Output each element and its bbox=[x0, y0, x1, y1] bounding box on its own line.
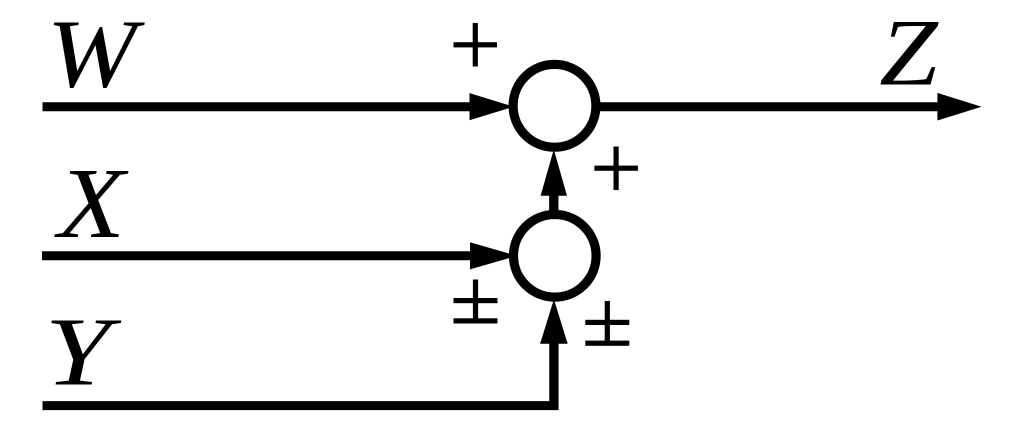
plus-minus sign at S2 Y input bbox=[585, 301, 629, 346]
plus sign at S1 lower input bbox=[594, 147, 638, 191]
wire Z output bbox=[599, 102, 939, 111]
wire X input bbox=[42, 251, 471, 260]
summing junction S2 bbox=[514, 215, 597, 298]
arrowhead into summer S2 bbox=[470, 242, 517, 269]
arrowhead Y into S2 bbox=[540, 299, 568, 343]
svg-text:Y: Y bbox=[45, 299, 122, 406]
svg-text:W: W bbox=[47, 0, 146, 107]
svg-text:X: X bbox=[54, 147, 129, 259]
summing junction S1 bbox=[513, 64, 596, 147]
wire W input bbox=[43, 102, 472, 111]
wire Y horizontal bbox=[43, 401, 559, 410]
plus-minus sign at S2 X input bbox=[454, 280, 498, 324]
arrowhead S2 into S1 bbox=[541, 149, 567, 195]
arrowhead Z output bbox=[937, 93, 981, 121]
wire Y vertical riser bbox=[549, 342, 558, 410]
svg-text:Z: Z bbox=[879, 0, 938, 106]
wire S2 to S1 bbox=[549, 194, 558, 212]
arrowhead into summer S1 bbox=[470, 93, 514, 120]
plus sign at S1 W input bbox=[454, 23, 498, 67]
